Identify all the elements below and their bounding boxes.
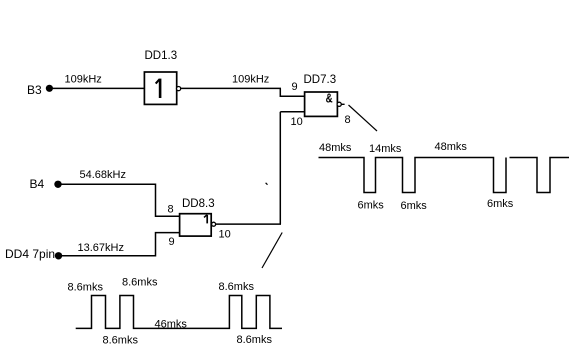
svg-text:48mks: 48mks <box>435 141 468 153</box>
svg-text:54.68kHz: 54.68kHz <box>80 169 126 181</box>
node B3 <box>27 83 53 97</box>
wire DD1.3 output to node <box>181 87 281 89</box>
wire DD4 7pin to DD8.3 pin 9 <box>62 233 181 256</box>
svg-text:10: 10 <box>291 116 303 128</box>
svg-text:8.6mks: 8.6mks <box>237 334 273 346</box>
inversion bubble DD8.3 output <box>212 222 216 226</box>
svg-text:109kHz: 109kHz <box>232 74 269 86</box>
inversion bubble DD7.3 output <box>337 102 341 106</box>
svg-text:9: 9 <box>169 236 175 248</box>
wire B4 to DD8.3 pin 8 <box>61 184 180 216</box>
wire DD7.3 pin 10 stub <box>280 111 304 113</box>
wire DD8.3 output to vertical node <box>216 223 281 225</box>
svg-text:13.67kHz: 13.67kHz <box>78 242 124 254</box>
node B4 <box>30 177 62 191</box>
NAND gate DD7.3 <box>304 74 338 116</box>
upper waveform trace (right part) <box>510 158 570 193</box>
wire DD7.3 output stub <box>341 103 344 105</box>
wire B3 to DD1.3 input <box>52 87 145 89</box>
svg-text:46mks: 46mks <box>155 319 188 331</box>
svg-text:8.6mks: 8.6mks <box>219 281 255 293</box>
wire vertical from DD8.3 output up to DD7.3 pin 10 <box>279 112 281 224</box>
svg-text:9: 9 <box>292 81 298 93</box>
svg-text:DD4 7pin: DD4 7pin <box>5 247 55 261</box>
inversion bubble DD1.3 output <box>177 87 181 91</box>
svg-text:B4: B4 <box>30 177 45 191</box>
svg-text:DD1.3: DD1.3 <box>145 50 178 62</box>
svg-text:8.6mks: 8.6mks <box>68 282 104 294</box>
wire step down into DD7.3 pin 9 <box>280 88 304 96</box>
upper waveform trace (left part) <box>319 158 507 193</box>
svg-text:14mks: 14mks <box>369 143 402 155</box>
inverter DD1.3 <box>144 50 177 104</box>
svg-text:6mks: 6mks <box>487 198 514 210</box>
svg-text:B3: B3 <box>27 83 42 97</box>
node DD4 7pin <box>5 247 62 261</box>
pointer line from lower waveform to DD8.3 output wire <box>262 233 282 269</box>
stray tick mark <box>266 183 268 185</box>
pointer line from DD7.3 output to upper waveform <box>349 105 378 131</box>
svg-text:8: 8 <box>168 204 174 216</box>
svg-text:DD8.3: DD8.3 <box>182 198 215 210</box>
svg-text:8.6mks: 8.6mks <box>103 335 139 347</box>
svg-text:6mks: 6mks <box>401 200 428 212</box>
svg-text:&: & <box>326 91 333 105</box>
svg-text:DD7.3: DD7.3 <box>304 74 337 86</box>
lower waveform trace <box>76 296 282 329</box>
svg-text:6mks: 6mks <box>358 200 385 212</box>
svg-text:48mks: 48mks <box>319 142 352 154</box>
svg-text:10: 10 <box>219 229 231 241</box>
svg-text:8.6mks: 8.6mks <box>122 277 158 289</box>
OR gate DD8.3 <box>180 198 215 236</box>
svg-text:8: 8 <box>345 114 351 126</box>
svg-text:109kHz: 109kHz <box>65 74 102 86</box>
